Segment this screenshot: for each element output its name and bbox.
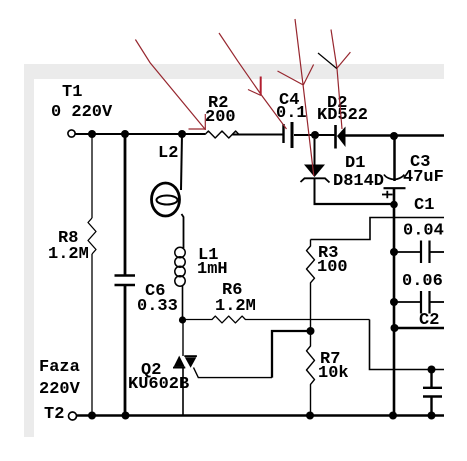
junction dot rail-R8 — [88, 130, 96, 138]
wire Q2 gate — [194, 368, 273, 378]
wire R8 lower — [91, 254, 93, 416]
wire C1 feed — [311, 218, 445, 240]
junction dot L1-R6 node — [179, 316, 186, 323]
resistor R8 — [88, 218, 96, 254]
wire L2 to L1 — [182, 214, 184, 248]
wire L2 branch upper — [181, 134, 182, 190]
svg-text:T1: T1 — [62, 83, 82, 102]
resistor R3 — [307, 240, 315, 332]
resistor R2 — [205, 131, 239, 138]
junction dot C4-D2-D1 node — [311, 131, 319, 139]
capacitor output — [423, 370, 442, 416]
capacitor C4 — [284, 122, 293, 148]
thyristor Q2 — [173, 356, 197, 368]
svg-text:1.2M: 1.2M — [215, 297, 256, 316]
capacitor C3 — [384, 175, 406, 189]
svg-text:10k: 10k — [318, 364, 349, 383]
frame top grey bar — [24, 64, 444, 79]
svg-text:D1: D1 — [345, 154, 365, 173]
zener diode D1 — [301, 139, 330, 204]
junction dot bottom-output cap — [428, 412, 436, 420]
junction dot bottom-C6 — [122, 412, 130, 420]
svg-text:0 220V: 0 220V — [51, 103, 113, 122]
svg-text:Faza: Faza — [39, 358, 80, 377]
label plus C3 — [382, 191, 393, 198]
svg-text:C1: C1 — [414, 196, 434, 215]
junction dot output cap top — [428, 366, 436, 374]
red annotation arrow 3 — [278, 19, 314, 176]
diode D2 — [336, 125, 346, 149]
svg-text:1.2M: 1.2M — [48, 245, 89, 264]
wire L1 to node — [182, 286, 184, 320]
resistor R6 — [183, 316, 370, 323]
wire C2 rail — [394, 327, 444, 330]
junction dot C2 rail — [391, 324, 399, 332]
svg-text:0.04: 0.04 — [403, 222, 444, 241]
junction dot rail-C6 — [121, 130, 129, 138]
svg-text:47uF: 47uF — [403, 168, 444, 187]
svg-text:1mH: 1mH — [197, 260, 228, 279]
terminal T1 — [68, 130, 75, 137]
resistor R7 — [307, 331, 315, 416]
capacitor 0.06 — [394, 291, 444, 314]
wire Q2 to bottom rail — [182, 367, 184, 416]
svg-text:100: 100 — [317, 258, 348, 277]
junction dot bottom-R7 — [306, 412, 314, 420]
wire C6 branch upper — [124, 134, 127, 275]
red annotation arrow 1 — [135, 40, 205, 131]
wire D1 to C3 bottom — [314, 203, 395, 205]
capacitor 0.04 — [394, 241, 444, 264]
wire R6 to output cap — [370, 320, 445, 370]
wire C3 to C2 rail — [393, 189, 396, 417]
inductor L1 — [175, 247, 185, 286]
svg-text:D814D: D814D — [333, 172, 384, 191]
junction dot D1-C3 — [390, 201, 398, 209]
svg-text:0.33: 0.33 — [137, 297, 178, 316]
terminal T2 — [69, 412, 77, 420]
junction dot gate-R7 node — [307, 327, 315, 335]
svg-text:L2: L2 — [158, 144, 178, 163]
wire R8 branch — [91, 134, 93, 218]
svg-text:T2: T2 — [44, 405, 64, 424]
wire C3 branch top — [393, 136, 396, 181]
red annotation arrow 4 — [318, 30, 350, 130]
frame left grey bar — [24, 64, 34, 437]
junction dot 0.06 — [390, 298, 398, 306]
svg-text:C2: C2 — [419, 311, 439, 330]
svg-text:KD522: KD522 — [317, 106, 368, 125]
svg-text:220V: 220V — [39, 380, 81, 399]
wire bottom rail — [76, 414, 444, 416]
junction dot bottom-R8 — [88, 412, 96, 420]
lamp L2 — [152, 183, 180, 216]
svg-text:0.06: 0.06 — [402, 272, 443, 291]
junction dot bottom-C3 — [389, 412, 397, 420]
wire top rail — [75, 134, 444, 136]
wire C6 branch lower — [124, 285, 127, 416]
junction dot rail-L2 — [178, 130, 186, 138]
junction dot rail-C3 — [390, 132, 398, 140]
junction dot 0.04 — [390, 248, 398, 256]
wire gate riser — [272, 331, 311, 378]
wire node to Q2 — [182, 320, 184, 356]
svg-text:KU602B: KU602B — [128, 375, 189, 394]
red annotation arrow 2 — [219, 33, 287, 129]
capacitor C6 — [115, 276, 136, 286]
svg-text:200: 200 — [205, 108, 236, 127]
